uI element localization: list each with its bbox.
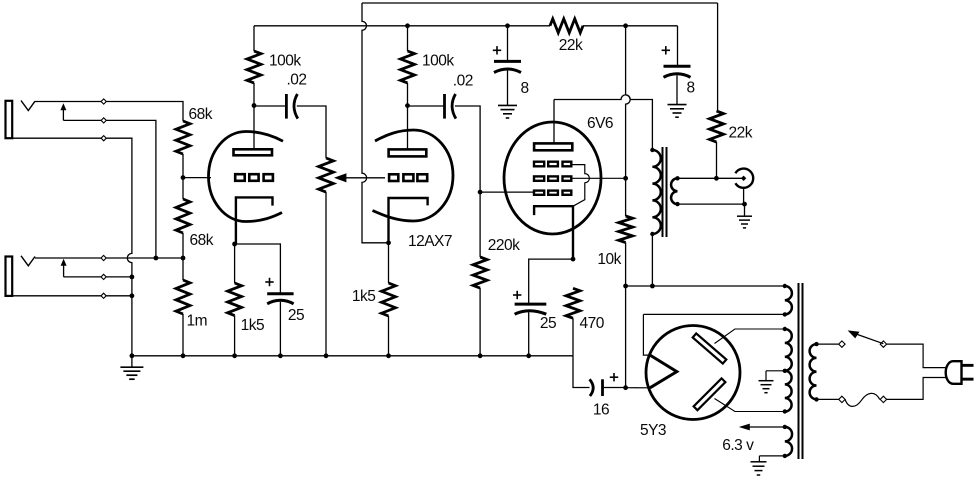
resistor R4 1m (grid leak) <box>182 258 184 280</box>
wire: 6.3v heater feed with arrow <box>744 426 785 428</box>
wire: plate 1 to HV winding top <box>715 329 785 344</box>
node: V3 cathode junction <box>571 257 576 262</box>
resistor R7 22k (B+ dropping, horizontal) <box>550 19 583 33</box>
wire: T1 secondary bottom to ground <box>678 203 745 205</box>
svg-text:6V6: 6V6 <box>587 115 613 132</box>
input jack J2 body <box>6 257 13 296</box>
terminal: J2 sleeve <box>101 293 106 298</box>
potentiometer VR1 (volume) <box>319 158 334 192</box>
node: V1 plate / C2 junction <box>252 103 257 108</box>
wire: heater winding bottom to ground <box>759 455 784 457</box>
ground: below C3 <box>507 71 509 106</box>
transformer T1 secondary winding <box>671 178 677 204</box>
node: J2 sleeve on ground line <box>130 293 135 298</box>
V4 plate 2 <box>694 378 726 410</box>
VR1 wiper arrow <box>334 173 346 182</box>
V1 grid <box>235 174 245 181</box>
svg-text:16: 16 <box>593 402 609 419</box>
wire: HV center tap to ground <box>766 370 785 372</box>
V4 filament <box>650 355 677 388</box>
node: screen junction <box>623 176 628 181</box>
node: 68k R2 bottom / 1m R4 top junction <box>181 256 186 261</box>
capacitor C3 8uF (filter) <box>505 23 510 28</box>
transformer T2 (power) rectifier/B+ winding <box>785 286 792 314</box>
resistor R12 10k (screen dropper) <box>619 216 633 243</box>
wire: V3 control grid lead from C4 <box>480 191 533 193</box>
switch S1 blade <box>858 335 884 344</box>
wire: B+ rail to power transformer HV-aux winding <box>626 285 785 287</box>
switch S1 <box>839 341 845 347</box>
node: V2 plate / C4 junction <box>405 103 410 108</box>
transformer T1 core <box>662 147 664 237</box>
svg-text:22k: 22k <box>729 125 753 142</box>
svg-text:470: 470 <box>580 315 605 332</box>
V3 plate <box>534 143 572 150</box>
node: speaker return junction <box>742 202 747 207</box>
terminal: J2 tip <box>101 255 106 260</box>
transformer T2 HV winding upper <box>785 329 792 371</box>
node: 16uF / rectifier filament junction <box>623 385 628 390</box>
svg-text:1m: 1m <box>187 313 208 330</box>
capacitor C1 25uF (V1 cathode bypass) <box>235 244 281 294</box>
transformer T2 6.3v heater winding <box>785 427 792 456</box>
node: V2 cathode / NFB junction <box>386 240 391 245</box>
wire: primary bottom to fuse <box>817 398 839 400</box>
wire: filament top to rectifier winding via left route <box>643 314 650 355</box>
resistor R11 22k (NFB) <box>710 111 724 142</box>
jack J2 tip contact <box>21 256 35 266</box>
svg-text:.02: .02 <box>453 73 473 90</box>
resistor R5 1k5 (V1 cathode) <box>234 244 236 283</box>
terminal: J1 tip <box>101 99 106 104</box>
V3 screen grid (row 2) <box>534 176 544 180</box>
resistor R6 1k5 (V2 cathode) <box>388 243 390 283</box>
svg-text:8: 8 <box>520 80 528 97</box>
capacitor C5 25uF (V3 cathode bypass) <box>529 259 573 304</box>
resistor R2 68k (grid stopper 2) <box>182 178 184 199</box>
svg-text:5Y3: 5Y3 <box>640 422 666 439</box>
wire: grid junction to V1 grid <box>183 177 211 179</box>
node: ground bus junctions <box>130 353 135 358</box>
resistor R8 100k (V2 plate load) <box>405 23 410 28</box>
wire: fuse to plug neutral <box>887 378 949 400</box>
capacitor C6 16uF (reservoir) <box>590 379 594 396</box>
svg-text:10k: 10k <box>597 251 621 268</box>
wire: filament bottom to B+ takeoff <box>626 387 650 389</box>
wire: beam plates tie to cathode (hop over screen lead) <box>572 165 589 207</box>
capacitor C2 .02 (coupling V1-V2) <box>254 105 286 107</box>
V3 beam plates (row 1) <box>534 162 544 167</box>
speaker SP1 <box>735 169 753 188</box>
plug P1 body <box>946 361 962 384</box>
svg-text:100k: 100k <box>422 53 454 70</box>
node: V1 cathode junction <box>232 242 237 247</box>
svg-text:220k: 220k <box>488 237 520 254</box>
V4 plate 1 <box>693 333 727 363</box>
V3 control grid (row 3) <box>534 191 544 195</box>
svg-text:68k: 68k <box>190 232 214 249</box>
ground: below C7 <box>676 75 678 104</box>
svg-text:100k: 100k <box>269 53 301 70</box>
wire: wiper to V2 grid (hop over NFB line) <box>346 177 385 179</box>
V1 cathode <box>236 197 273 244</box>
wire: primary top to switch <box>817 343 839 345</box>
resistor R1 68k (grid stopper) <box>176 121 190 154</box>
wire: B+ supply rail y=25.8 <box>254 25 550 27</box>
wire: VR1 bottom to ground bus <box>325 192 327 356</box>
wire: NFB vertical from top bus to V2 cathode (with hop over y=26 rail) <box>362 3 389 243</box>
node: V3 grid / 220k junction <box>478 190 483 195</box>
wire: plate 2 to HV winding bottom <box>715 399 785 412</box>
V2 grid <box>389 174 398 181</box>
svg-text:1k5: 1k5 <box>352 288 376 305</box>
resistor R9 220k (V3 grid leak) <box>479 192 481 257</box>
wire: T1 secondary top to speaker <box>678 177 743 179</box>
V3 cathode <box>534 206 573 259</box>
wire: V2 plate lead <box>407 106 409 150</box>
wire: J2 ring to ground line <box>64 276 132 278</box>
svg-text:1k5: 1k5 <box>241 317 265 334</box>
V2 cathode <box>389 198 428 243</box>
jack J1 tip contact <box>21 101 35 111</box>
ground: heater winding <box>751 461 767 463</box>
resistor R3 100k (V1 plate load) <box>253 26 255 51</box>
svg-text:8: 8 <box>686 80 694 97</box>
node: J1-ring/J2-tip junction <box>154 256 159 261</box>
wire: right drop from top bus to 22k R11 <box>717 3 719 111</box>
triode V2 (12AX7 section 2) envelope <box>373 130 454 221</box>
fuse F1 <box>839 396 845 402</box>
svg-text:22k: 22k <box>559 37 583 54</box>
wire: V3 plate lead up <box>553 100 555 144</box>
wire: J2 sleeve to ground line <box>12 295 132 297</box>
plug P1 prongs <box>962 364 974 367</box>
V1 plate <box>234 149 273 155</box>
wire: B+ top feedback bus (y=3) <box>362 2 718 4</box>
terminal: J1 ring <box>101 118 106 123</box>
wire: V1 plate lead <box>253 106 255 150</box>
capacitor C4 .02 (coupling V2-V3) <box>408 105 445 107</box>
wire: V3 screen lead to screen node <box>572 177 625 179</box>
svg-text:25: 25 <box>288 307 304 324</box>
capacitor C7 8uF (filter, screen node) <box>623 23 628 28</box>
transformer T2 core <box>798 283 800 459</box>
transformer T2 mains primary winding <box>810 344 817 399</box>
transformer T1 (output) primary winding <box>652 150 660 234</box>
wire: J2 tip to grid junction (hop over ground line) <box>35 257 183 259</box>
jack J1 shorting contact arrow <box>60 103 66 110</box>
svg-text:12AX7: 12AX7 <box>408 233 452 250</box>
ground: main chassis ground <box>131 356 133 367</box>
node: J2 ring on ground line <box>130 275 135 280</box>
wire: J1 ring contact down to J2 tip junction <box>63 120 155 258</box>
ground: HV center tap <box>765 371 767 381</box>
node: B+ rail junction <box>623 284 628 289</box>
wire: ground bus <box>132 355 573 357</box>
node: V1 grid junction <box>181 175 186 180</box>
node: NFB takeoff <box>714 176 719 181</box>
pentode V3 6V6 envelope <box>504 122 601 234</box>
wire: screen node vertical (hop over plate wire) <box>626 26 631 216</box>
wire: ground bus drop to C6 16uF <box>573 356 590 388</box>
wire: T1 primary bottom to B+ rail <box>651 234 653 286</box>
svg-text:6.3 v: 6.3 v <box>722 437 754 454</box>
wire: J1 tip to 68k R1 <box>35 102 183 122</box>
svg-text:25: 25 <box>540 315 556 332</box>
terminal: J2 ring <box>101 274 106 279</box>
wire: V3 plate to output transformer (hop over screen wire) <box>554 95 652 150</box>
jack J2 shorting contact arrow <box>61 259 67 266</box>
terminal: J1 sleeve <box>101 136 106 141</box>
wire: speaker to return junction <box>743 188 745 204</box>
svg-text:68k: 68k <box>189 106 213 123</box>
ground: speaker return <box>744 204 746 216</box>
V2 plate <box>389 149 427 156</box>
wire: switch to plug hot <box>887 344 949 368</box>
rectifier V4 5Y3 envelope <box>646 326 740 420</box>
triode V1 (12AX7 section 1) envelope <box>209 132 284 222</box>
input jack J1 body <box>6 101 13 138</box>
resistor R10 470 (V3 cathode) <box>566 288 580 318</box>
svg-text:.02: .02 <box>286 72 306 89</box>
transformer T2 HV winding lower <box>785 371 792 412</box>
wire: J1 sleeve to ground line <box>12 138 132 356</box>
